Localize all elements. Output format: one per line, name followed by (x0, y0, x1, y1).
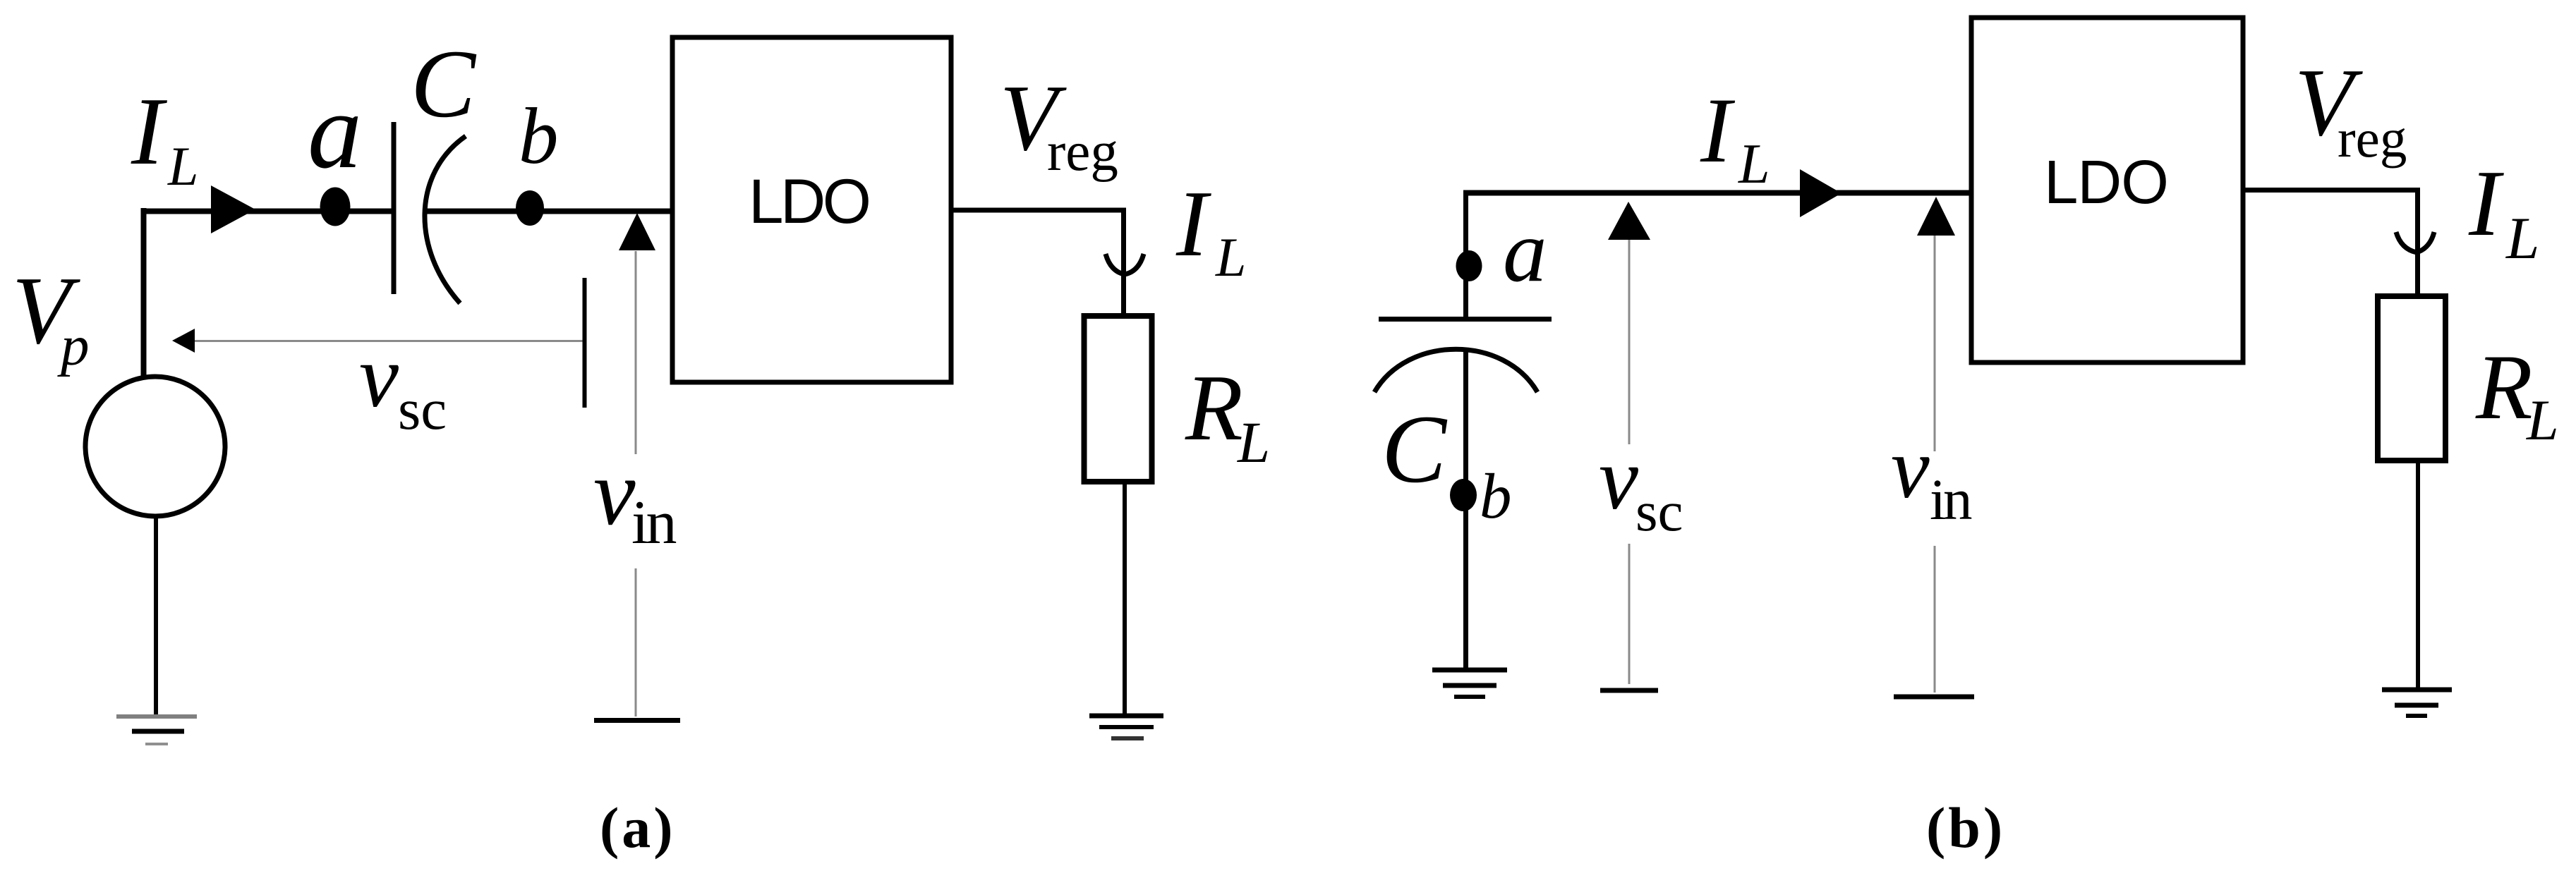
label LDO (a) (749, 166, 869, 236)
label C (a) (411, 30, 477, 138)
resistor RL (a) (1084, 316, 1152, 482)
voltage arrow vin (a) (619, 213, 655, 717)
node a (a) (320, 188, 351, 226)
label LDO (b) (2044, 148, 2168, 217)
current arrow IL chevron (b output) (2396, 232, 2434, 252)
wire: LDO output to RL (b) (2243, 190, 2418, 308)
svg-text:I: I (2468, 151, 2504, 255)
svg-text:reg: reg (1047, 121, 1118, 183)
wire: capacitor to ground (b) (1463, 351, 1468, 669)
LDO regulator box U1 (b) (1971, 18, 2243, 362)
LDO regulator box U1 (a) (672, 37, 951, 382)
label IL (b input) (1700, 78, 1770, 195)
label Vreg (a) (1000, 66, 1118, 183)
svg-text:in: in (1930, 467, 1972, 532)
svg-text:C: C (411, 30, 477, 138)
wire: Vp to ground (a) (154, 516, 158, 714)
wire: RL to ground (b) (2416, 461, 2420, 688)
svg-text:reg: reg (2338, 108, 2407, 169)
label vsc (b) (1599, 430, 1683, 543)
svg-text:I: I (1175, 171, 1211, 276)
svg-text:I: I (131, 78, 167, 185)
svg-text:L: L (2505, 205, 2539, 272)
svg-text:L: L (167, 135, 198, 197)
wire: capacitor node to LDO input (b) (1463, 190, 1972, 319)
label vin (b) (1891, 420, 1972, 532)
label (b) caption (1926, 795, 2005, 860)
svg-text:R: R (1185, 355, 1243, 460)
voltage arrow vsc (b) (1608, 202, 1650, 684)
label IL (a output) (1175, 171, 1246, 288)
current arrow IL on input wire (b) (1800, 169, 1842, 217)
wire: LDO output to RL (a) (951, 210, 1124, 326)
svg-text:L: L (1738, 133, 1770, 195)
svg-text:I: I (1700, 78, 1736, 182)
wire: capacitor to LDO input (a) (425, 209, 672, 214)
svg-text:v: v (1599, 430, 1638, 528)
svg-text:L: L (2526, 388, 2559, 452)
label RL (a) (1185, 355, 1270, 475)
svg-text:L: L (1215, 226, 1246, 288)
svg-text:v: v (359, 328, 399, 426)
label IL (b output) (2468, 151, 2539, 272)
label (a) caption (600, 795, 676, 860)
label Vreg (b) (2294, 49, 2407, 169)
node a (b) (1456, 250, 1482, 281)
capacitor C curved plate (b) (1374, 349, 1537, 392)
svg-text:LDO: LDO (2044, 148, 2168, 217)
voltage source Vp (85, 377, 225, 516)
label vin (a) (593, 440, 676, 557)
ground capacitor C (b) (1432, 670, 1507, 697)
svg-text:sc: sc (398, 377, 447, 441)
label C (b) (1381, 395, 1448, 503)
vin ground bar (a) (594, 718, 680, 723)
label RL (b) (2475, 335, 2559, 452)
capacitor C left plate (a) (392, 122, 397, 294)
label node b (a) (519, 92, 559, 181)
svg-text:in: in (631, 489, 676, 557)
node b (b) (1450, 479, 1477, 511)
svg-text:(a): (a) (600, 795, 676, 860)
svg-text:C: C (1381, 395, 1448, 503)
ground Vp (a) (116, 717, 197, 744)
resistor RL (b) (2378, 296, 2445, 461)
vin ground bar (b) (1894, 695, 1974, 700)
svg-text:R: R (2475, 335, 2533, 439)
label node b (b) (1480, 461, 1512, 532)
svg-text:(b): (b) (1926, 795, 2005, 860)
svg-text:LDO: LDO (749, 166, 869, 236)
current arrow IL on input wire (a) (211, 185, 255, 233)
label Vp (12, 257, 90, 377)
voltage arrow vin (b) (1917, 197, 1955, 693)
ground RL (a) (1089, 716, 1163, 738)
voltage arrow vsc (a) (172, 329, 583, 353)
vsc ground bar (b) (1600, 688, 1658, 693)
svg-text:b: b (519, 92, 559, 181)
label node a (b) (1503, 203, 1547, 300)
svg-text:p: p (57, 314, 90, 377)
svg-text:b: b (1480, 461, 1512, 532)
svg-text:a: a (1503, 203, 1547, 300)
svg-text:a: a (308, 71, 362, 191)
current arrow IL chevron (a output) (1106, 254, 1144, 274)
ground RL (b) (2382, 690, 2452, 716)
svg-text:v: v (1891, 420, 1930, 516)
svg-text:L: L (1237, 410, 1270, 475)
capacitor C curved plate (a) (425, 136, 466, 303)
wire: Vp to main node, part (a) (141, 208, 392, 378)
label node a (a) (308, 71, 362, 191)
vsc reference bar (a) (583, 278, 587, 408)
svg-text:v: v (593, 440, 636, 544)
label vsc (a) (359, 328, 447, 441)
node b (a) (516, 190, 544, 226)
capacitor C top plate (b) (1379, 317, 1552, 322)
svg-text:sc: sc (1635, 480, 1683, 543)
wire: RL to ground (a) (1123, 482, 1127, 714)
label IL (a input) (131, 78, 198, 197)
